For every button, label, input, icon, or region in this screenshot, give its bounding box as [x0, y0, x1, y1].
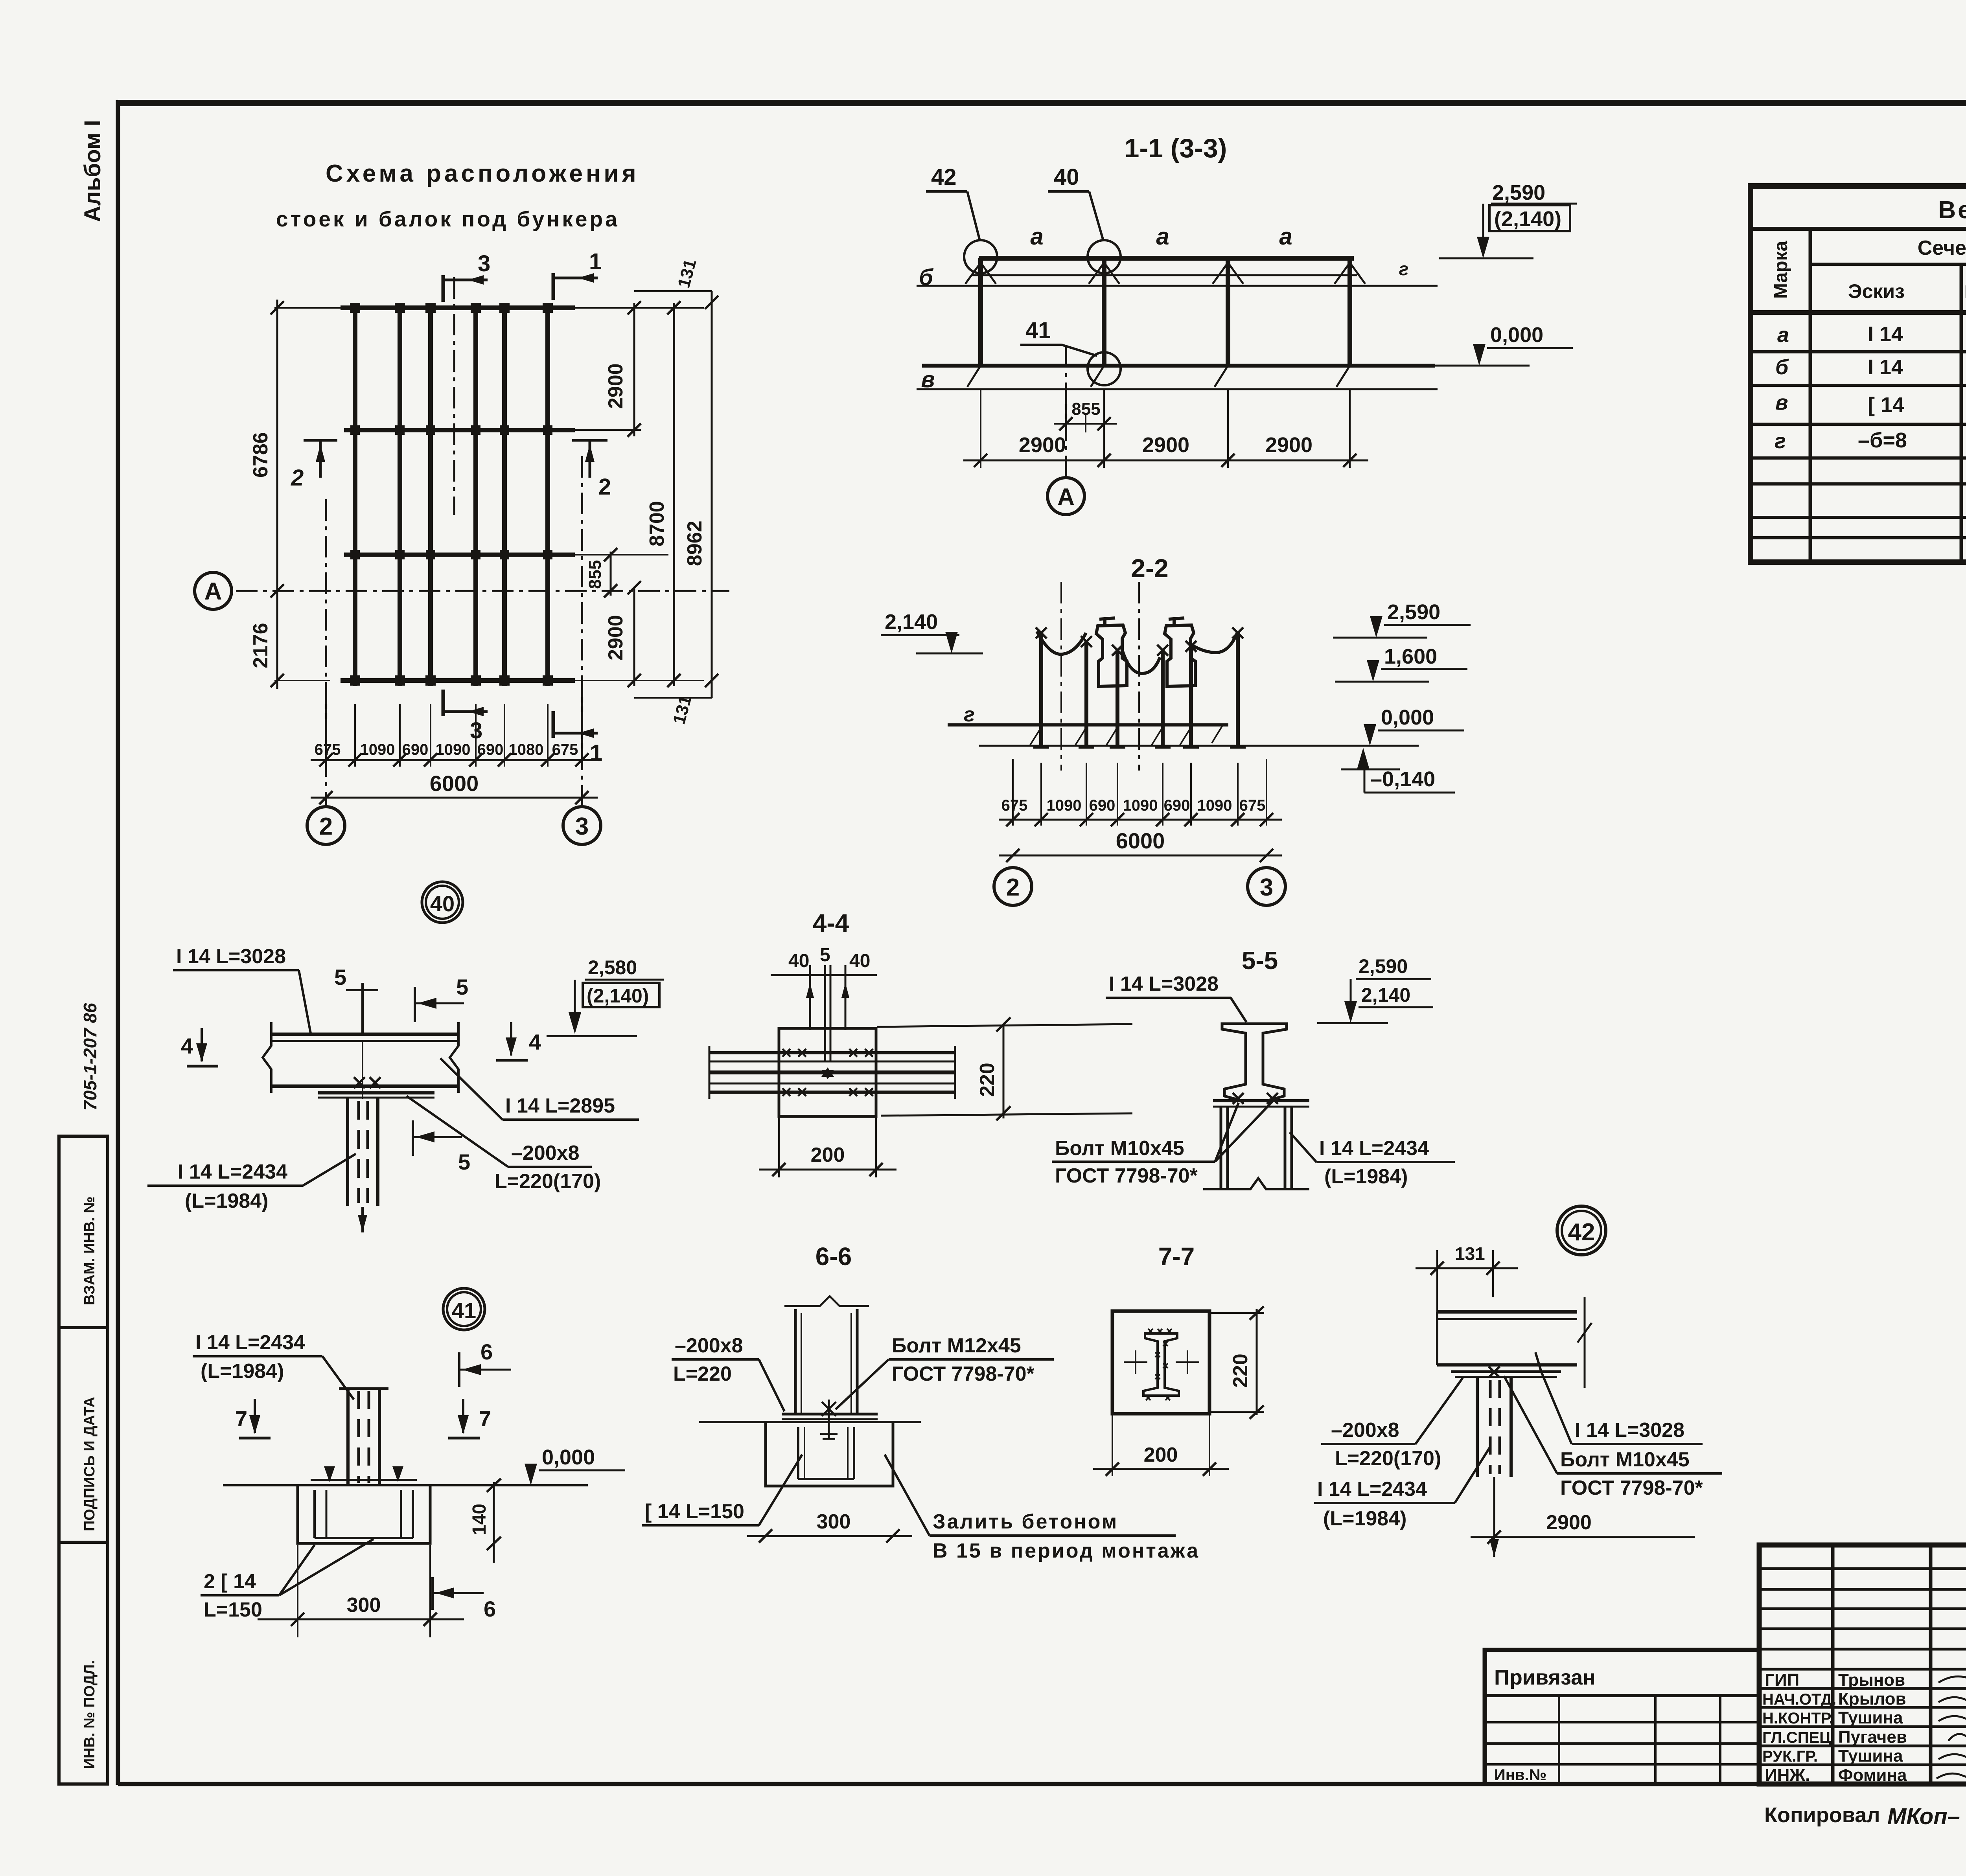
svg-text:Схема расположения: Схема расположения — [326, 160, 639, 187]
svg-text:ИНЖ.: ИНЖ. — [1765, 1766, 1810, 1785]
beam v (ground beam) — [922, 364, 1435, 368]
columns of section 2-2 — [1041, 632, 1238, 748]
svg-text:5: 5 — [334, 965, 346, 989]
svg-text:а: а — [1156, 223, 1169, 250]
anchor marks node41 — [324, 1466, 403, 1482]
svg-text:I 14 L=2434: I 14 L=2434 — [178, 1161, 287, 1183]
grid axis 3 centerline — [581, 456, 583, 807]
svg-text:705-1-207 86: 705-1-207 86 — [80, 1003, 100, 1111]
dim 140 node41 — [469, 1479, 501, 1563]
label I14 L=2895 node40 — [440, 1058, 639, 1120]
svg-text:40: 40 — [849, 951, 870, 971]
label I14 L=2434 (L=1984) node42 — [1314, 1447, 1490, 1530]
svg-text:2,590: 2,590 — [1492, 181, 1545, 204]
svg-text:5-5: 5-5 — [1242, 946, 1278, 975]
baseplate node41 — [311, 1479, 417, 1481]
svg-text:ГИП: ГИП — [1765, 1670, 1799, 1690]
svg-text:Привязан: Привязан — [1494, 1666, 1596, 1689]
svg-text:Тушина: Тушина — [1838, 1708, 1903, 1727]
dim 220 right 4-4 — [976, 1017, 1011, 1120]
dimension 131 bottom right — [634, 693, 712, 726]
stiffener hatches 2-2 — [1030, 725, 1223, 745]
svg-text:855: 855 — [585, 560, 605, 589]
svg-text:675: 675 — [1239, 797, 1266, 814]
svg-text:1-1 (3-3): 1-1 (3-3) — [1125, 133, 1227, 163]
label Bolt M10x45 GOST 7798-70* (5-5) — [1052, 1101, 1273, 1187]
svg-text:(L=1984): (L=1984) — [201, 1360, 284, 1383]
row b — [1775, 355, 1966, 380]
axis A centerline horizontal — [236, 590, 729, 592]
svg-text:–б=8: –б=8 — [1858, 429, 1907, 452]
I-beam section inside (7-7) — [1143, 1329, 1179, 1400]
label C14 L=150 (6-6) — [642, 1455, 802, 1525]
svg-text:L=220: L=220 — [673, 1363, 732, 1385]
axis circle 2 — [307, 807, 345, 844]
svg-text:42: 42 — [1568, 1219, 1595, 1246]
row v — [1775, 391, 1966, 418]
svg-text:[ 14: [ 14 — [1868, 393, 1904, 417]
axis circle A (section 1-1) — [1047, 478, 1084, 515]
svg-text:ГОСТ 7798-70*: ГОСТ 7798-70* — [1055, 1164, 1198, 1187]
label I14 L=2434 (L=1984) node41 — [193, 1331, 354, 1400]
svg-text:–200х8: –200х8 — [511, 1142, 580, 1164]
svg-text:1: 1 — [590, 740, 602, 766]
beams through 4-4 — [709, 1053, 955, 1092]
svg-text:I 14 L=3028: I 14 L=3028 — [1575, 1419, 1684, 1442]
svg-text:300: 300 — [347, 1594, 381, 1617]
dimension 8700 (right) — [646, 301, 681, 687]
svg-text:–0,140: –0,140 — [1370, 767, 1435, 791]
plan column line V6 — [545, 303, 550, 686]
svg-text:220: 220 — [1229, 1354, 1252, 1388]
svg-text:В 15 в период монтажа: В 15 в период монтажа — [933, 1539, 1200, 1562]
svg-text:2: 2 — [1006, 874, 1020, 901]
level 0,000 text node41 — [525, 1446, 625, 1485]
svg-text:Копировал: Копировал — [1764, 1803, 1880, 1827]
row a — [1777, 322, 1966, 347]
section mark 3 top — [443, 251, 490, 302]
dim 40 5 40 above — [771, 945, 877, 1061]
dimension 6000 bottom 2-2 — [999, 828, 1282, 862]
svg-text:г: г — [1399, 259, 1409, 279]
bolt symbol (6-6) — [820, 1400, 838, 1439]
svg-text:Пугачев: Пугачев — [1838, 1727, 1907, 1747]
node bubble 40 on section — [1088, 240, 1121, 273]
bottom spacing dimension line 675/1090/690/1090/690/1080/675 — [311, 696, 598, 767]
weld x-marks on plate 4-4 — [782, 1049, 873, 1096]
level mark 0,000 right of 2-2 — [1364, 706, 1464, 746]
dimension 6786 / 2176 (left) — [249, 300, 341, 689]
beam v bottom line — [917, 388, 1438, 390]
svg-text:г: г — [1775, 429, 1786, 453]
ground line (6-6) — [699, 1421, 921, 1423]
svg-text:200: 200 — [1144, 1444, 1178, 1466]
level 2,590 / 2,140 (5-5) — [1317, 955, 1433, 1023]
svg-text:I 14: I 14 — [1868, 322, 1903, 346]
svg-text:L=150: L=150 — [204, 1598, 262, 1621]
svg-text:2: 2 — [598, 474, 611, 500]
svg-text:6000: 6000 — [1116, 828, 1165, 853]
label -200x8 L=220(170) node42 — [1321, 1378, 1463, 1470]
column top arrowheads 2-2 — [1036, 627, 1243, 656]
plan column line V5 — [502, 303, 507, 686]
svg-text:690: 690 — [477, 741, 504, 758]
foundation pit (6-6) — [766, 1422, 893, 1486]
svg-text:6: 6 — [480, 1339, 493, 1364]
column under node 40 — [348, 1098, 378, 1206]
section mark 1 bottom — [553, 711, 602, 766]
level mark -0,140 right of 2-2 — [1341, 748, 1455, 793]
svg-text:ГОСТ 7798-70*: ГОСТ 7798-70* — [892, 1363, 1035, 1385]
node bubble 41 on section — [1088, 352, 1121, 385]
axis circle 2 (section 2-2) — [994, 868, 1032, 905]
beam b line — [917, 285, 1438, 287]
label -200x8 L=220 (6-6) — [672, 1334, 784, 1411]
table data row lines — [1751, 352, 1966, 538]
dim 220 (7-7) — [1211, 1306, 1264, 1419]
svg-text:ПОДПИСЬ И ДАТА: ПОДПИСЬ И ДАТА — [81, 1397, 98, 1531]
node circle 40 — [422, 882, 463, 923]
footer: Kopiroval — [1764, 1803, 1960, 1829]
svg-text:6786: 6786 — [249, 432, 272, 478]
column break bottom (5-5) — [1203, 1178, 1309, 1189]
stiffener hatches at columns — [965, 263, 1365, 387]
section mark 6 bottom node41 — [433, 1577, 496, 1621]
bolt x-marks (5-5) — [1233, 1093, 1278, 1104]
personnel column verticals — [1833, 1545, 1966, 1784]
svg-text:Н.КОНТР.: Н.КОНТР. — [1762, 1710, 1833, 1727]
bolt symbols center 4-4 — [821, 1067, 834, 1079]
dimension 855 in section 1-1 — [1054, 389, 1117, 432]
svg-text:Фомина: Фомина — [1838, 1766, 1907, 1785]
svg-text:I 14 L=2434: I 14 L=2434 — [195, 1331, 305, 1354]
section mark 3 bottom — [443, 690, 488, 743]
svg-text:2-2: 2-2 — [1131, 554, 1168, 583]
svg-text:8962: 8962 — [683, 520, 706, 566]
plan center axis (section 3-3 line) — [453, 277, 455, 515]
svg-text:а: а — [1030, 223, 1043, 250]
svg-text:2: 2 — [319, 813, 333, 840]
svg-text:–200х8: –200х8 — [675, 1334, 743, 1357]
level mark 0,000 right of 1-1 — [1435, 323, 1573, 366]
svg-text:675: 675 — [552, 741, 578, 758]
level mark 2,590 right of 2-2 — [1333, 600, 1471, 638]
personnel named row lines — [1759, 1669, 1966, 1765]
svg-text:4-4: 4-4 — [813, 909, 849, 937]
svg-text:2: 2 — [291, 465, 304, 491]
svg-text:ВЗАМ. ИНВ. №: ВЗАМ. ИНВ. № — [81, 1196, 98, 1305]
svg-text:2900: 2900 — [1265, 433, 1313, 457]
svg-text:Болт М10х45: Болт М10х45 — [1055, 1137, 1184, 1160]
bunker axis centerlines 2-2 — [1060, 582, 1062, 771]
svg-text:2900: 2900 — [1019, 433, 1066, 457]
svg-text:ГЛ.СПЕЦ.: ГЛ.СПЕЦ. — [1762, 1729, 1835, 1746]
plan node squares row 2 — [350, 425, 552, 435]
table outer border — [1751, 186, 1966, 562]
ground line 0.000 in 2-2 — [979, 745, 1419, 747]
label Bolt M10x45 GOST 7798-70* node42 — [1504, 1376, 1722, 1499]
label 2C14 L=150 node41 — [201, 1539, 374, 1621]
dim 131 node42 — [1416, 1243, 1518, 1313]
dimension 8962 (outer right) — [683, 291, 718, 698]
beam node42 — [1437, 1297, 1592, 1388]
svg-text:(2,140): (2,140) — [1494, 207, 1561, 231]
svg-text:в: в — [1775, 391, 1788, 414]
svg-text:Сечение: Сечение — [1918, 237, 1966, 259]
bunker bottom curve — [1037, 631, 1086, 654]
I-beam section (5-5): top flange — [1222, 1024, 1287, 1101]
label I14 L=3028 (5-5) — [1106, 973, 1246, 1022]
svg-text:675: 675 — [315, 741, 341, 758]
beam a bottom edge — [971, 274, 1357, 276]
left margin vertical label: Альбом I — [80, 120, 105, 222]
section mark 6 top right node41 — [459, 1339, 511, 1387]
plan beam row 2 — [344, 428, 575, 432]
bearing plate node42 — [1451, 1370, 1561, 1373]
svg-text:7: 7 — [479, 1406, 491, 1431]
left margin stamp box: Инв.№ подл. — [59, 1542, 108, 1784]
svg-text:2900: 2900 — [1142, 433, 1189, 457]
svg-text:1090: 1090 — [1047, 797, 1082, 814]
dim 300 node41 — [258, 1545, 464, 1637]
svg-text:1090: 1090 — [360, 741, 395, 758]
label Zalit betonom (6-6) — [885, 1455, 1200, 1562]
section mark 4 left — [181, 1028, 218, 1066]
personnel row: Gl.spec Pugachev — [1762, 1727, 1966, 1747]
svg-text:–200х8: –200х8 — [1331, 1419, 1399, 1442]
svg-text:131: 131 — [1455, 1243, 1485, 1264]
svg-text:40: 40 — [788, 951, 809, 971]
label I14 L=3028 node42 — [1535, 1352, 1703, 1444]
svg-text:в: в — [921, 367, 935, 392]
svg-text:0,000: 0,000 — [542, 1446, 595, 1469]
svg-text:3: 3 — [1260, 874, 1273, 901]
svg-text:Крылов: Крылов — [1838, 1689, 1906, 1709]
bolt x-marks node40 — [354, 1077, 381, 1088]
section 5 arrow bottom — [413, 1120, 470, 1174]
svg-text:2176: 2176 — [249, 623, 272, 668]
level mark 2,590 (2,140) right of 1-1 — [1439, 181, 1577, 258]
column node41 — [339, 1389, 388, 1485]
svg-text:220: 220 — [976, 1063, 999, 1097]
bolt mark node42 — [1489, 1367, 1500, 1378]
plan column line V2 — [398, 303, 402, 686]
crane rail right — [1165, 618, 1195, 686]
label I14 L=2434 (L=1984) node40 — [147, 1154, 356, 1212]
svg-text:(L=1984): (L=1984) — [185, 1190, 268, 1212]
label I14 L=3028 node40 — [173, 945, 311, 1033]
bottom spacing dims 2-2 — [999, 759, 1282, 826]
svg-text:0,000: 0,000 — [1490, 323, 1543, 347]
svg-text:НАЧ.ОТД.: НАЧ.ОТД. — [1762, 1691, 1836, 1708]
personnel row: Nach.otd Krylov — [1762, 1689, 1966, 1709]
left margin stamp box: Подпись и дата — [59, 1328, 108, 1542]
svg-text:ИНВ. № ПОДЛ.: ИНВ. № ПОДЛ. — [81, 1660, 98, 1769]
svg-text:Эскиз: Эскиз — [1848, 280, 1905, 302]
svg-text:7: 7 — [235, 1406, 247, 1431]
dim 300 (6-6) — [747, 1510, 912, 1543]
level mark 1,600 right of 2-2 — [1335, 645, 1467, 682]
svg-text:(2,140): (2,140) — [587, 985, 649, 1007]
column 1-1 #3 — [1226, 258, 1230, 366]
svg-text:300: 300 — [817, 1510, 851, 1533]
column 1-1 #4 — [1347, 258, 1352, 366]
label Bolt M12x45 GOST 7798-70* (6-6) — [836, 1334, 1054, 1409]
dimension 6000 bottom — [311, 771, 598, 804]
svg-text:690: 690 — [1164, 797, 1190, 814]
label I14 L=2434 (L=1984) (5-5) — [1290, 1132, 1455, 1188]
svg-text:Болт М12х45: Болт М12х45 — [892, 1334, 1021, 1357]
axis circle 3 — [563, 807, 601, 844]
svg-text:5: 5 — [820, 945, 830, 966]
svg-text:3: 3 — [478, 251, 490, 276]
section mark 4 right — [496, 1022, 541, 1060]
svg-text:41: 41 — [452, 1298, 476, 1323]
column node42 — [1477, 1377, 1511, 1477]
column 1-1 #1 — [978, 258, 983, 366]
dim 200 bottom 4-4 — [759, 1116, 896, 1177]
left margin stamp box: Взам.инв.№ — [59, 1136, 108, 1328]
leader 42 — [926, 164, 980, 241]
svg-text:б: б — [919, 265, 934, 290]
column legs (5-5) — [1221, 1107, 1292, 1189]
left margin handwritten doc number 705-1-207 86 — [80, 1003, 100, 1111]
svg-text:7-7: 7-7 — [1158, 1242, 1195, 1271]
svg-text:А: А — [204, 578, 222, 605]
section 5-5 cut line through node 40 — [334, 965, 378, 1232]
svg-text:690: 690 — [402, 741, 429, 758]
svg-text:Марка: Марка — [1771, 241, 1791, 299]
plate rect 4-4 — [779, 1028, 876, 1116]
beam I14 node40: top flange — [271, 1033, 458, 1036]
svg-text:I 14: I 14 — [1868, 355, 1903, 379]
svg-text:1,600: 1,600 — [1384, 645, 1437, 668]
plan beam row 1 (top) — [341, 305, 575, 310]
svg-text:Болт М10х45: Болт М10х45 — [1560, 1448, 1690, 1471]
column feet marks 2-2 — [1033, 747, 1246, 749]
table header lines — [1810, 229, 1966, 264]
plate square (7-7) — [1112, 1311, 1209, 1414]
privyazan box — [1485, 1650, 1759, 1784]
svg-text:4: 4 — [529, 1030, 541, 1054]
label -200x8 L=220(170) node40 — [407, 1096, 601, 1193]
svg-text:I 14 L=2434: I 14 L=2434 — [1317, 1478, 1427, 1501]
svg-text:40: 40 — [430, 891, 455, 916]
personnel row: Ruk.gr. Tushina — [1762, 1746, 1966, 1766]
svg-text:[ 14 L=150: [ 14 L=150 — [645, 1500, 744, 1523]
svg-text:L=220(170): L=220(170) — [1335, 1447, 1441, 1470]
ground line 0,000 node41 — [223, 1484, 588, 1486]
section mark 1 top — [553, 249, 602, 300]
personnel row: Inzh. Fomina — [1765, 1766, 1966, 1785]
axis circle A — [195, 572, 232, 609]
dimension 2900 x3 bottom of section 1-1 — [963, 389, 1368, 468]
svg-text:200: 200 — [811, 1144, 845, 1166]
svg-text:б: б — [1775, 355, 1789, 379]
svg-text:Инв.№: Инв.№ — [1494, 1766, 1546, 1784]
svg-text:675: 675 — [1001, 797, 1028, 814]
bearing plate (5-5) — [1213, 1099, 1309, 1102]
node bubble 42 on section — [964, 240, 997, 273]
axis circle 3 (section 2-2) — [1248, 868, 1285, 905]
dim 2900 node42 — [1471, 1477, 1695, 1557]
centerline cross marks (7-7) — [1124, 1350, 1199, 1374]
foundation pit node41 — [298, 1485, 430, 1543]
personnel row: GIP Trynov — [1765, 1670, 1966, 1690]
axis line to circle A (section 1-1) — [1065, 346, 1067, 477]
svg-text:I 14 L=3028: I 14 L=3028 — [1109, 973, 1219, 995]
beam end break left — [263, 1022, 271, 1093]
svg-text:6000: 6000 — [430, 771, 479, 796]
plan column line V4 — [473, 303, 478, 686]
svg-text:1: 1 — [589, 249, 602, 274]
section 5 arrow right top — [415, 975, 468, 1022]
title block outer frame — [1759, 1545, 1966, 1784]
beam g line 2-2 — [948, 723, 1228, 726]
svg-text:(L=1984): (L=1984) — [1324, 1165, 1408, 1188]
svg-text:1090: 1090 — [436, 741, 471, 758]
svg-text:ГОСТ 7798-70*: ГОСТ 7798-70* — [1560, 1477, 1703, 1499]
dimension 131 top right — [634, 257, 712, 291]
beam I14 node40: bottom flange — [271, 1085, 458, 1088]
crane rail left — [1096, 618, 1127, 686]
svg-text:855: 855 — [1071, 399, 1100, 419]
node circle 41 — [443, 1288, 485, 1330]
svg-text:42: 42 — [931, 164, 957, 190]
svg-text:L=220(170): L=220(170) — [495, 1170, 601, 1193]
svg-text:МКоп–: МКоп– — [1887, 1804, 1960, 1829]
svg-text:Ведомость элементов: Ведомость элементов — [1938, 197, 1966, 224]
svg-text:А: А — [1057, 484, 1074, 510]
node circle 42 — [1557, 1206, 1606, 1255]
dim 200 (7-7) — [1093, 1415, 1229, 1476]
svg-text:2900: 2900 — [1546, 1511, 1592, 1534]
svg-text:1090: 1090 — [1123, 797, 1158, 814]
svg-text:стоек и балок под бункера: стоек и балок под бункера — [276, 207, 620, 231]
svg-text:41: 41 — [1025, 318, 1051, 343]
section mark 2 left — [291, 440, 337, 491]
plan column line V1 — [353, 303, 357, 686]
svg-text:РУК.ГР.: РУК.ГР. — [1762, 1748, 1818, 1765]
svg-text:8700: 8700 — [646, 501, 668, 546]
svg-text:Тушина: Тушина — [1838, 1746, 1903, 1766]
svg-text:г: г — [964, 703, 975, 726]
dimension 2900 (right, upper) + 855 + 2900 lower — [558, 301, 704, 437]
grid axis 2 centerline — [325, 499, 327, 807]
svg-text:Альбом I: Альбом I — [80, 120, 105, 222]
svg-text:а: а — [1777, 323, 1789, 347]
svg-text:I 14 L=2434: I 14 L=2434 — [1319, 1137, 1429, 1160]
svg-text:140: 140 — [469, 1504, 490, 1535]
column 6-6 with break — [784, 1296, 869, 1414]
svg-text:690: 690 — [1089, 797, 1116, 814]
svg-text:2 [ 14: 2 [ 14 — [204, 1570, 256, 1593]
svg-text:3: 3 — [575, 813, 589, 840]
svg-text:2,580: 2,580 — [588, 956, 637, 978]
section mark 7 right — [448, 1399, 491, 1438]
svg-text:5: 5 — [456, 975, 468, 999]
plan beam row 4 (bottom) — [341, 678, 575, 683]
personnel row: N.kontr Tushina — [1762, 1708, 1966, 1727]
beam end break right — [450, 1022, 458, 1093]
plan node squares row 3 — [350, 550, 552, 559]
svg-text:4: 4 — [181, 1034, 193, 1058]
table title row — [1751, 197, 1966, 229]
svg-text:I 14 L=2895: I 14 L=2895 — [505, 1094, 615, 1117]
svg-text:1090: 1090 — [1197, 797, 1232, 814]
svg-text:6: 6 — [484, 1596, 496, 1621]
svg-text:6-6: 6-6 — [815, 1242, 852, 1271]
